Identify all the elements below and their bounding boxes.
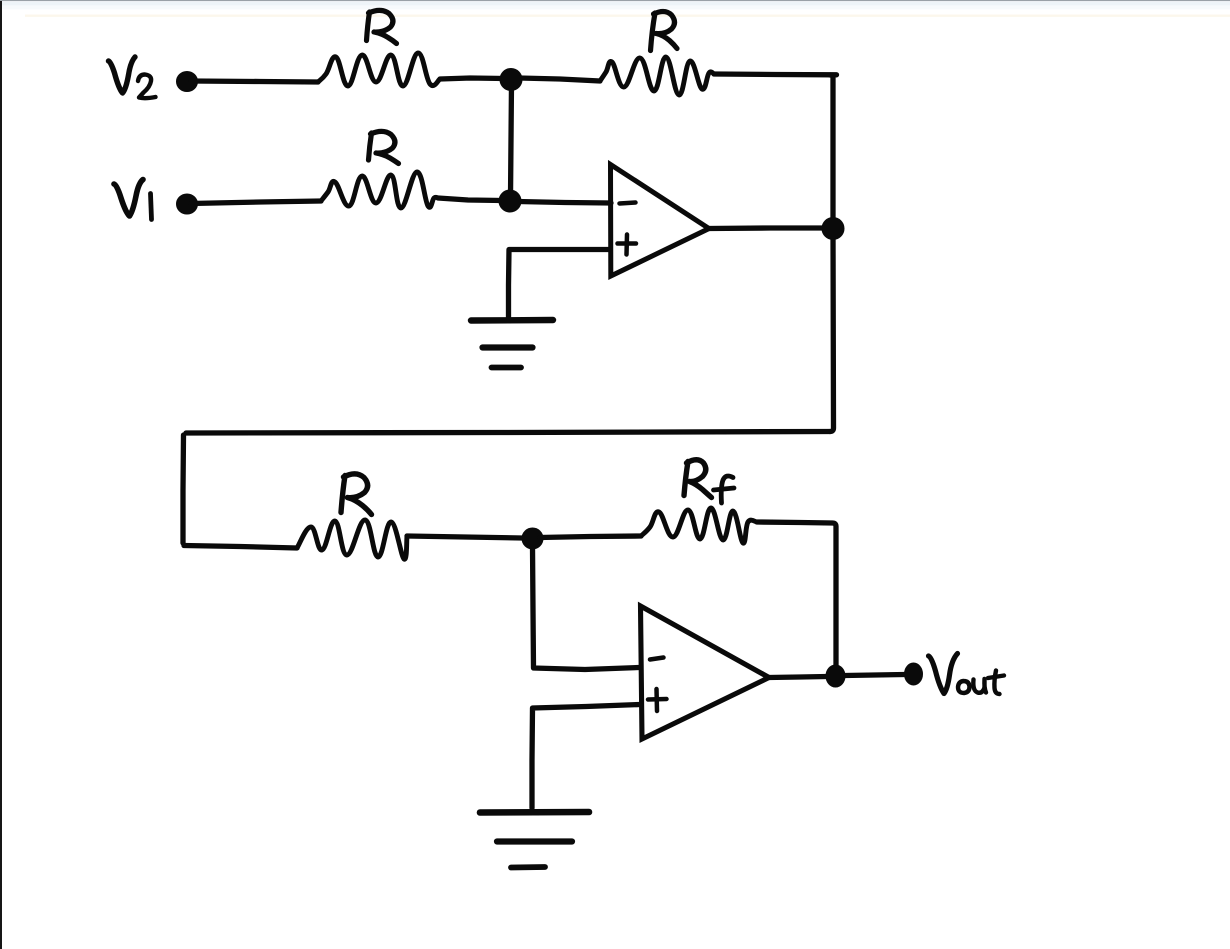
label R3	[369, 131, 399, 163]
wire V2 to R1	[191, 81, 318, 82]
wire node D to Rf	[540, 536, 641, 538]
resistor R3	[321, 172, 438, 208]
wire U2 output to node E	[769, 677, 827, 678]
label R1	[367, 10, 397, 43]
wire R3 to node B	[438, 198, 502, 201]
label V1	[114, 180, 152, 220]
resistor Rf	[641, 508, 757, 543]
wire R1 to node A	[440, 78, 504, 79]
node A junction dot	[501, 69, 522, 90]
label Rf	[684, 460, 734, 503]
wire V1 to R3	[191, 201, 321, 204]
wire node A to R2	[519, 78, 600, 81]
node E junction dot	[827, 666, 845, 687]
resistor R4	[297, 520, 407, 559]
resistor R2	[600, 57, 714, 95]
wire feedback: right vertical down	[830, 75, 834, 432]
wire Rf to right corner down	[757, 522, 836, 670]
resistor R1	[318, 53, 440, 86]
wire node B to op-amp U1 inverting input	[518, 202, 611, 204]
wire R4 to node D	[407, 536, 522, 538]
wire U1 non-inverting input to ground stub	[509, 250, 610, 318]
op-amp U1	[611, 165, 710, 277]
wire left corner to R4	[184, 546, 297, 549]
wire node E to Vout terminal	[845, 675, 905, 676]
U2 plus sign	[648, 689, 667, 711]
wire feedback: left vertical	[180, 435, 186, 543]
node D junction dot	[523, 529, 543, 549]
wire node D down to U2 inverting input	[533, 546, 640, 670]
wire feedback: long horizontal	[186, 432, 830, 434]
label V2	[109, 57, 156, 98]
terminal dot V1	[177, 195, 197, 214]
U1 minus sign	[620, 203, 636, 204]
top window chrome strip	[0, 0, 1230, 1]
terminal dot V2	[177, 72, 197, 91]
node B junction dot	[500, 191, 521, 212]
U1 plus sign	[618, 235, 637, 255]
wire U2 non-inverting input to ground stub	[532, 705, 640, 809]
label R2	[651, 11, 678, 50]
faint cream line	[25, 15, 1230, 17]
U2 minus sign	[650, 658, 664, 660]
label R4	[341, 474, 372, 515]
op-amp U2	[641, 606, 770, 739]
terminal dot Vout	[905, 664, 922, 685]
label Vout	[929, 654, 1005, 695]
node C junction dot	[823, 218, 844, 239]
left window border	[0, 1, 2, 949]
wire node A to node B vertical	[511, 84, 512, 197]
wire R2 to right corner	[714, 71, 837, 77]
ground GND2	[480, 812, 589, 868]
ground GND1	[471, 320, 553, 368]
wire U1 output to node C	[709, 225, 830, 231]
